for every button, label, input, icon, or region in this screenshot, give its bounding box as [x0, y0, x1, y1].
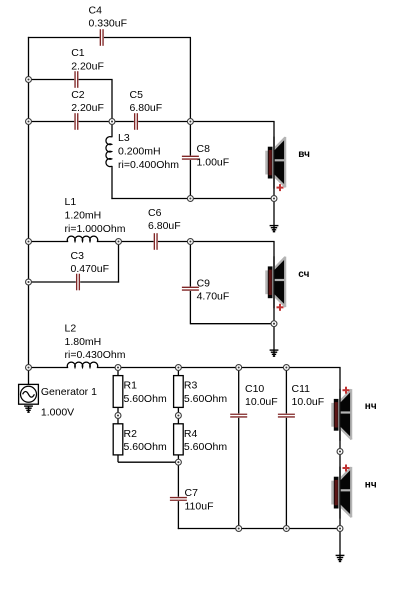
svg-text:R4: R4: [184, 428, 198, 440]
svg-text:6.80uF: 6.80uF: [130, 102, 163, 114]
wire R1-R2 link: [117, 407, 119, 424]
label C9: [197, 277, 230, 302]
svg-text:R1: R1: [124, 380, 138, 392]
node tweeter minus: [271, 196, 277, 202]
label C2: [71, 89, 104, 114]
label L1: [65, 196, 126, 235]
node left bus / C3 row: [26, 279, 32, 285]
svg-text:C2: C2: [71, 89, 85, 101]
node C6 / C9 top: [187, 239, 193, 245]
label C7: [185, 487, 214, 512]
node left bus / L1 row: [26, 239, 32, 245]
svg-text:C6: C6: [148, 207, 162, 219]
wire L1 row left: [29, 241, 69, 243]
svg-text:L1: L1: [65, 196, 77, 208]
capacitor C11: [278, 413, 295, 417]
svg-text:1.80mH: 1.80mH: [65, 336, 102, 348]
svg-text:C3: C3: [71, 250, 85, 262]
inductor L3 coil: [106, 137, 112, 167]
inductor L2 coil: [67, 362, 97, 367]
node R3 top: [175, 365, 181, 371]
node C8 bottom: [187, 196, 193, 202]
wire L3 column lower stub: [111, 166, 113, 199]
node C10 top: [236, 365, 242, 371]
wire tweeter column: [273, 122, 275, 199]
label C6: [148, 207, 181, 232]
wire C1 riser: [111, 80, 113, 122]
inductor L1 coil: [67, 236, 97, 241]
svg-text:10.0uF: 10.0uF: [292, 396, 325, 408]
svg-text:5.60Ohm: 5.60Ohm: [184, 441, 227, 453]
resistor R4 body: [174, 424, 184, 455]
wire C9 column: [189, 242, 191, 325]
svg-text:ri=0.400Ohm: ri=0.400Ohm: [118, 159, 179, 171]
svg-text:L2: L2: [65, 323, 77, 335]
node woofer minus: [337, 526, 343, 532]
svg-text:сч: сч: [298, 269, 309, 280]
svg-text:110uF: 110uF: [185, 501, 214, 513]
svg-text:C9: C9: [197, 277, 211, 289]
svg-text:нч: нч: [365, 480, 377, 491]
svg-text:ri=1.000Ohm: ri=1.000Ohm: [65, 223, 126, 235]
speaker нч (woofer 1): [331, 387, 352, 441]
svg-text:C10: C10: [245, 383, 264, 395]
wire woofer column: [339, 368, 341, 529]
resistor R1 body: [113, 376, 123, 408]
label C4: [89, 4, 128, 29]
capacitor C6: [154, 233, 158, 250]
svg-text:ri=0.430Ohm: ri=0.430Ohm: [65, 349, 126, 361]
wire C1 row: [29, 79, 113, 81]
label C11: [292, 383, 325, 408]
label L3: [118, 132, 179, 171]
node left bus / L2 row: [26, 365, 32, 371]
resistor R3 body: [174, 376, 184, 408]
label R1: [124, 380, 167, 405]
wire tweeter ground stub: [273, 199, 275, 226]
wire midrange column: [273, 242, 275, 324]
label R2: [124, 428, 167, 453]
ground woofer: [336, 555, 345, 561]
wire woofer ground stub: [339, 529, 341, 556]
wire C10 column: [238, 368, 240, 529]
wire L1 row right: [97, 241, 275, 243]
svg-text:5.60Ohm: 5.60Ohm: [124, 441, 167, 453]
wire L2 row right: [97, 367, 341, 369]
wire midrange bottom row: [190, 323, 274, 325]
svg-text:1.000V: 1.000V: [41, 406, 74, 418]
svg-text:5.60Ohm: 5.60Ohm: [124, 393, 167, 405]
wire C7 column: [177, 462, 179, 529]
wire L2 row left: [29, 367, 69, 369]
wire C8 column: [189, 122, 191, 199]
wire C3 riser: [118, 242, 120, 283]
svg-text:C4: C4: [89, 4, 103, 16]
node midrange minus: [271, 321, 277, 327]
svg-text:4.70uF: 4.70uF: [197, 291, 230, 303]
svg-text:C11: C11: [292, 383, 311, 395]
label C3: [71, 250, 110, 275]
capacitor C9: [182, 287, 199, 291]
wire R3-R4 link: [177, 407, 179, 424]
wire R3 top stub: [177, 368, 179, 376]
capacitor C7: [170, 497, 187, 501]
node L2 / R1 junction: [115, 365, 121, 371]
ground tweeter: [270, 226, 279, 232]
svg-text:C8: C8: [197, 143, 211, 155]
wire tweeter bottom row: [111, 198, 274, 200]
node R1-R2 junction: [115, 413, 121, 419]
node left bus / C2 row: [26, 119, 32, 125]
wire midrange ground stub: [273, 324, 275, 350]
label R3: [184, 380, 227, 405]
wire right column top (C4 to C5 node): [189, 38, 191, 122]
label C8: [197, 143, 230, 168]
wire R2 bottom stub: [117, 455, 119, 462]
capacitor C3: [76, 273, 80, 290]
capacitor C1: [74, 71, 78, 88]
ground midrange: [270, 350, 279, 356]
label C1: [71, 47, 104, 72]
capacitor C5: [134, 113, 138, 130]
capacitor C4: [100, 29, 104, 46]
svg-text:1.00uF: 1.00uF: [197, 156, 230, 168]
node R2/R4/C7 junction: [175, 459, 181, 465]
svg-text:0.330uF: 0.330uF: [89, 18, 128, 30]
speaker нч (woofer 2): [331, 465, 352, 519]
svg-text:R3: R3: [184, 380, 198, 392]
svg-text:Generator 1: Generator 1: [41, 386, 97, 398]
svg-text:2.20uF: 2.20uF: [71, 102, 104, 114]
node C11 bottom: [283, 526, 289, 532]
wire R1 top stub: [117, 368, 119, 376]
svg-text:C1: C1: [71, 47, 85, 59]
capacitor C8: [182, 156, 199, 160]
speaker сч (midrange): [265, 256, 286, 311]
capacitor C10: [230, 413, 247, 417]
node left bus / C1 row: [26, 77, 32, 83]
node between woofers: [337, 449, 343, 455]
wire bottom row: [178, 528, 340, 530]
node R3-R4 junction: [175, 413, 181, 419]
capacitor C2: [74, 113, 78, 130]
node C11 top: [283, 365, 289, 371]
node C1-C2 / L3 top: [109, 119, 115, 125]
svg-text:0.200mH: 0.200mH: [118, 146, 161, 158]
wire R2 bottom row: [118, 461, 178, 463]
svg-text:6.80uF: 6.80uF: [148, 220, 181, 232]
svg-text:R2: R2: [124, 428, 138, 440]
speaker вч (tweeter): [265, 137, 286, 192]
svg-text:10.0uF: 10.0uF: [245, 396, 278, 408]
svg-text:нч: нч: [365, 401, 377, 412]
node C5 / C8 top: [187, 119, 193, 125]
node C10 bottom: [236, 526, 242, 532]
svg-text:C7: C7: [185, 487, 199, 499]
wire R4 bottom stub: [177, 455, 179, 462]
svg-text:вч: вч: [298, 149, 310, 160]
svg-text:C5: C5: [130, 89, 144, 101]
resistor R2 body: [113, 424, 123, 455]
svg-text:L3: L3: [118, 132, 130, 144]
label R4: [184, 428, 227, 453]
wire L3 column upper stub: [111, 122, 113, 138]
generator G1 (AC source): [19, 384, 39, 404]
svg-text:2.20uF: 2.20uF: [71, 61, 104, 73]
svg-text:1.20mH: 1.20mH: [65, 210, 102, 222]
svg-text:5.60Ohm: 5.60Ohm: [184, 393, 227, 405]
node L1 / C3 junction: [116, 239, 122, 245]
wire top row (C4 branch): [28, 37, 191, 39]
wire left bus vertical: [28, 37, 30, 385]
ground generator: [24, 406, 33, 412]
wire C2/C5 row: [29, 121, 275, 123]
wire C11 column: [285, 368, 287, 529]
label C5: [130, 89, 163, 114]
svg-text:0.470uF: 0.470uF: [71, 263, 110, 275]
wire C3 row: [29, 281, 120, 283]
label L2: [65, 323, 126, 362]
label C10: [245, 383, 278, 408]
